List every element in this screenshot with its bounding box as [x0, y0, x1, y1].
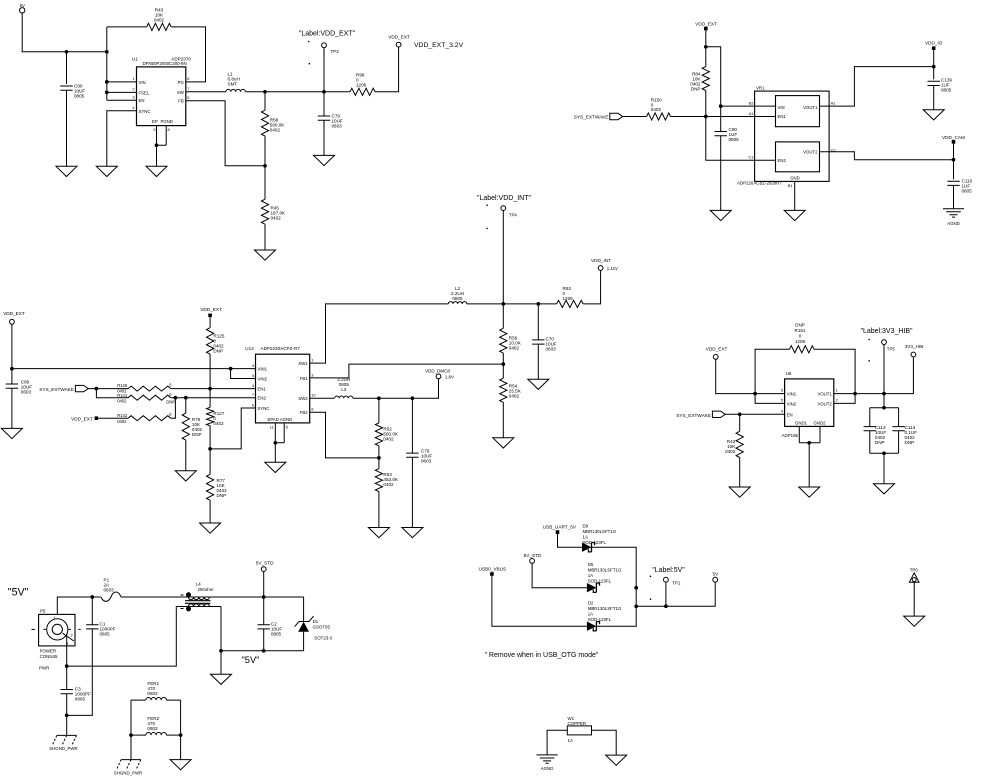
- svg-text:0402: 0402: [270, 128, 281, 133]
- svg-text:GND1: GND1: [795, 421, 808, 426]
- junction C2 bottom: [262, 649, 266, 653]
- svg-text:TP1: TP1: [672, 581, 681, 586]
- wire VDD_IO down: [933, 50, 935, 79]
- svg-text:0603: 0603: [421, 459, 432, 464]
- junction TP1 tap: [664, 604, 668, 608]
- wire TP6 to ground: [913, 582, 915, 616]
- node TP6 test point: [909, 568, 919, 583]
- svg-text:VIN1: VIN1: [787, 392, 797, 397]
- svg-text:ADP220ACBZ-2828R7: ADP220ACBZ-2828R7: [737, 180, 782, 185]
- op-amp U5 ADP195 body: [782, 371, 834, 438]
- svg-text:0603: 0603: [147, 726, 158, 731]
- svg-text:8: 8: [311, 407, 313, 412]
- wire USB_UART_5V to D9: [558, 534, 583, 547]
- wire TP5 down: [883, 345, 885, 408]
- wire P5 pin2 down: [66, 634, 68, 690]
- svg-text:D9: D9: [583, 524, 589, 529]
- resistor W1 COPPER jumper: [567, 716, 591, 743]
- junction VIN pin: [105, 80, 109, 84]
- node USB_UART_5V: [543, 525, 577, 534]
- power flag VDD_CAM: [942, 135, 965, 144]
- resistor R151 DNP: [790, 323, 815, 353]
- junction PWR return: [65, 664, 69, 668]
- wire R142 up to EN2: [171, 398, 176, 419]
- svg-text:PWR: PWR: [39, 665, 49, 670]
- ground R54: [493, 438, 514, 448]
- ground R77: [200, 523, 221, 533]
- junction VIN rail: [753, 392, 757, 396]
- svg-text:R142: R142: [117, 413, 128, 418]
- junction EN1 node: [704, 115, 708, 119]
- svg-text:B2: B2: [749, 101, 754, 106]
- svg-text:VDD_EXT_3.2V: VDD_EXT_3.2V: [414, 42, 464, 49]
- svg-text:0805: 0805: [962, 189, 973, 194]
- ground C80: [56, 166, 77, 176]
- wire W1 right to ground: [592, 730, 617, 755]
- pin C1 label: [749, 155, 754, 160]
- ground C139: [923, 110, 944, 120]
- capacitor C139: [928, 78, 953, 93]
- junction EPAD ground: [273, 441, 277, 445]
- junction R58 top: [263, 90, 267, 94]
- pin 2 FSEL: [107, 87, 137, 93]
- svg-text:0: 0: [799, 334, 802, 339]
- svg-text:VIN2: VIN2: [258, 377, 268, 382]
- ground SHGND_PWR chassis 2: [114, 760, 143, 776]
- svg-text:VOUT1: VOUT1: [817, 392, 832, 397]
- svg-text:AGND: AGND: [947, 221, 960, 226]
- wire R52 to FB2 node: [378, 446, 380, 469]
- svg-text:SYS_EXTWAKE: SYS_EXTWAKE: [39, 387, 74, 392]
- svg-text:R151: R151: [795, 328, 806, 333]
- ground C89: [1, 428, 22, 438]
- svg-text:MBR130LSFT1G: MBR130LSFT1G: [583, 529, 617, 534]
- svg-text:EPAD AGND: EPAD AGND: [268, 417, 293, 422]
- svg-text:DNP: DNP: [691, 87, 701, 92]
- pin numbers U13 right: [311, 358, 316, 412]
- node 3V3_HIB terminal: [905, 344, 924, 357]
- resistor R42: [725, 414, 743, 457]
- node VDD_EXT output terminal: [388, 34, 410, 47]
- svg-text:D1: D1: [313, 619, 319, 624]
- wire TP1 down: [665, 582, 667, 606]
- svg-text:ADP195: ADP195: [782, 433, 799, 438]
- wire C70 to ground: [537, 344, 539, 379]
- svg-text:1206: 1206: [356, 82, 367, 87]
- wire R125 to EN1 node: [209, 354, 211, 388]
- svg-text:SYS_EXTWAKE: SYS_EXTWAKE: [574, 115, 609, 120]
- svg-text:VOUT2: VOUT2: [817, 401, 832, 406]
- junction U5 ground: [807, 441, 811, 445]
- svg-text:VIN1: VIN1: [258, 367, 268, 372]
- wire VIN2 branch: [231, 369, 256, 379]
- svg-text:FSEL: FSEL: [139, 90, 150, 95]
- svg-text:EN: EN: [139, 98, 145, 103]
- junction output rail: [634, 604, 638, 608]
- wire output rail to 5V: [636, 582, 715, 606]
- wire EPAD stubs: [270, 423, 288, 443]
- capacitor C3: [61, 687, 92, 702]
- svg-text:VIN: VIN: [778, 105, 785, 110]
- node SYS_EXTWAKE input U5: [676, 411, 725, 418]
- wire C3 to shield gnd: [66, 694, 68, 736]
- svg-text:0603: 0603: [104, 588, 115, 593]
- svg-text:5V_STD: 5V_STD: [256, 561, 274, 566]
- svg-text:VDD_EXT: VDD_EXT: [388, 34, 410, 39]
- junction EN1 pullup: [208, 387, 212, 391]
- pin B2 label: [749, 101, 754, 106]
- svg-text:MBR130LSFT1G: MBR130LSFT1G: [588, 606, 622, 611]
- ground U5: [799, 487, 820, 497]
- svg-text:VDD_EXT: VDD_EXT: [706, 347, 728, 352]
- svg-text:11: 11: [270, 425, 274, 430]
- svg-text:0402: 0402: [271, 216, 282, 221]
- wire GND pin to ground: [794, 181, 796, 210]
- resistor R98: [350, 73, 375, 96]
- svg-text:0402: 0402: [383, 482, 394, 487]
- pin 7 SW wire: [186, 86, 226, 92]
- wire VOUT2 join: [834, 394, 855, 404]
- wire R58 bottom to FB node: [264, 136, 266, 199]
- svg-text:GND2: GND2: [814, 421, 827, 426]
- svg-text:1: 1: [311, 358, 313, 363]
- svg-text:1: 1: [54, 615, 56, 620]
- svg-text:1.11V: 1.11V: [607, 266, 618, 271]
- resistor R52: [375, 398, 399, 446]
- wire SYNC link: [210, 408, 255, 449]
- wire R53 to ground: [378, 492, 380, 528]
- wire R42 to ground: [739, 458, 741, 488]
- ground AGND earth W1: [537, 755, 558, 771]
- svg-text:EN2: EN2: [258, 396, 267, 401]
- wire GND stubs U5: [799, 426, 820, 442]
- pin 1 VIN: [107, 76, 137, 82]
- svg-text:0402: 0402: [154, 18, 165, 23]
- svg-text:SHGND_PWR: SHGND_PWR: [49, 746, 78, 751]
- svg-text:TP3: TP3: [331, 49, 340, 54]
- connector P5 POWER CONN45: [32, 609, 81, 671]
- svg-text:SMT: SMT: [228, 82, 238, 87]
- svg-text:0805: 0805: [271, 632, 282, 637]
- svg-text:ADP2230ACPZ-R7: ADP2230ACPZ-R7: [261, 346, 301, 351]
- svg-text:DNP: DNP: [192, 432, 202, 437]
- power flag VDD_EXT R142: [71, 416, 98, 421]
- junction VDD_EXT branch: [704, 45, 708, 49]
- wire C110 to AGND: [953, 185, 955, 208]
- node "5V" label small: [242, 655, 260, 665]
- junction TP4 R56 node: [501, 302, 505, 306]
- ground R53: [368, 528, 389, 538]
- capacitor C79: [318, 92, 343, 129]
- wire SW1 up to L2 rail: [310, 304, 449, 363]
- wire R84 bottom: [705, 91, 707, 117]
- junction EP ground: [155, 143, 159, 147]
- svg-text:VIN: VIN: [139, 80, 146, 85]
- svg-text:"Label:VDD_EXT": "Label:VDD_EXT": [299, 31, 356, 38]
- svg-text:0402: 0402: [117, 399, 127, 404]
- power flag VDD_EXT top: [695, 21, 717, 30]
- svg-text:1206: 1206: [563, 296, 574, 301]
- svg-text:VR1: VR1: [756, 85, 765, 90]
- resistor R127: [207, 389, 225, 426]
- svg-text:SW2: SW2: [298, 396, 308, 401]
- wire L4 bottom winding right to ground rail: [221, 607, 304, 651]
- svg-text:0805: 0805: [452, 296, 463, 301]
- resistor R43: [147, 8, 171, 31]
- svg-text:1: 1: [132, 76, 134, 81]
- svg-text:TP6: TP6: [910, 568, 919, 573]
- svg-text:1206: 1206: [795, 339, 806, 344]
- svg-text:SW: SW: [177, 90, 185, 95]
- wire R141 to EN2 pin: [171, 397, 256, 399]
- svg-text:3: 3: [311, 372, 313, 377]
- svg-text:1A: 1A: [568, 738, 573, 743]
- wire R77 to ground: [209, 500, 211, 523]
- wire C79 to ground: [323, 120, 325, 155]
- svg-text:CONN45: CONN45: [40, 654, 58, 659]
- svg-text:FB1: FB1: [300, 376, 308, 381]
- ground W1 right: [606, 755, 627, 765]
- svg-text:USB_UART_5V: USB_UART_5V: [543, 525, 577, 530]
- junction FER2 right: [179, 733, 183, 737]
- pin 4 SYNC wire to ground: [107, 105, 137, 166]
- note remove USB_OTG: [485, 652, 599, 659]
- svg-text:"5V": "5V": [242, 655, 260, 665]
- svg-text:0402: 0402: [117, 419, 127, 424]
- wire R127 to R77 junction: [209, 426, 211, 475]
- svg-text:0805: 0805: [729, 137, 740, 142]
- capacitor C70: [532, 304, 557, 352]
- wire FB2 feedback: [310, 412, 379, 458]
- svg-text:VOUT2: VOUT2: [803, 150, 818, 155]
- node "5V" label big: [8, 586, 29, 598]
- wire W1 left to AGND: [547, 730, 567, 755]
- svg-text:8: 8: [168, 127, 170, 132]
- resistor R53: [375, 469, 399, 492]
- wire C1 to shield gnd: [67, 629, 93, 716]
- svg-text:U1: U1: [132, 56, 138, 61]
- capacitor C113: [864, 408, 899, 454]
- svg-text:5: 5: [252, 373, 254, 378]
- svg-text:VDD_EXT: VDD_EXT: [3, 311, 25, 316]
- svg-text:TP4: TP4: [509, 213, 518, 218]
- ground L4 rail: [211, 674, 232, 684]
- ground SYNC: [96, 166, 117, 176]
- ground FER right: [170, 760, 191, 770]
- svg-text:3: 3: [132, 94, 134, 99]
- svg-text:COPPER: COPPER: [568, 721, 587, 726]
- wire L3 to VDD_DMC8: [353, 379, 439, 398]
- svg-text:PG: PG: [178, 80, 185, 85]
- svg-text:TP5: TP5: [887, 347, 896, 352]
- node 5V_STD terminal: [256, 561, 274, 572]
- svg-text:U5: U5: [786, 371, 792, 376]
- ground AGND earth: [943, 209, 964, 226]
- wire R151 left leg: [755, 349, 789, 393]
- svg-text:R126: R126: [117, 383, 128, 388]
- svg-text:GND: GND: [790, 176, 800, 181]
- svg-text:SW1: SW1: [298, 361, 308, 366]
- svg-text:A1: A1: [749, 111, 754, 116]
- junction R76 tap: [184, 396, 188, 400]
- svg-text:PGND: PGND: [161, 119, 173, 124]
- junction C70 tap: [536, 302, 540, 306]
- svg-text:7: 7: [187, 86, 189, 91]
- ground TP6: [904, 616, 925, 626]
- wire SW node L1 to R98: [245, 91, 350, 93]
- node TP4 test point: [477, 195, 532, 218]
- svg-text:1A: 1A: [588, 573, 593, 578]
- svg-text:MBR130LSFT1G: MBR130LSFT1G: [588, 568, 622, 573]
- svg-text:EN1: EN1: [258, 387, 267, 392]
- wire VOUT1 A2 to VDD_IO: [820, 67, 934, 107]
- junction cap bottom: [882, 451, 886, 455]
- capacitor C76: [406, 398, 432, 463]
- svg-text:7: 7: [252, 392, 254, 397]
- svg-text:6: 6: [781, 388, 783, 393]
- svg-text:U13: U13: [245, 346, 254, 351]
- junction C1 tap: [90, 595, 94, 599]
- svg-text:3V3_HIB: 3V3_HIB: [905, 344, 924, 349]
- svg-text:EN1: EN1: [778, 114, 787, 119]
- wire R150 to EN1 pin: [671, 116, 776, 118]
- inductor FER2: [131, 716, 181, 735]
- junction ground rail: [219, 649, 223, 653]
- pin A1 label: [749, 111, 754, 116]
- svg-text:USB0_VBUS: USB0_VBUS: [479, 567, 507, 572]
- wire R98 to VDD_EXT terminal: [375, 47, 399, 92]
- svg-text:"5V": "5V": [8, 586, 29, 598]
- ground R76: [175, 471, 196, 481]
- svg-text:VOUT1: VOUT1: [803, 105, 818, 110]
- resistor R76: [182, 398, 202, 440]
- svg-text:FB: FB: [178, 99, 184, 104]
- node USB0_VBUS: [479, 567, 507, 576]
- svg-text:EP: EP: [152, 119, 158, 124]
- op-amp VR1 regulator 1 cell: [776, 96, 820, 127]
- svg-text:EN2: EN2: [778, 158, 787, 163]
- svg-text:R141: R141: [117, 393, 128, 398]
- ground R45: [255, 250, 276, 260]
- svg-text:0805: 0805: [75, 697, 86, 702]
- node SYS_EXTWAKE input middle: [39, 385, 88, 392]
- svg-text:0402: 0402: [651, 107, 662, 112]
- ground EPAD: [265, 462, 286, 472]
- pin numbers U5: [781, 388, 838, 414]
- junction TP3 node: [322, 90, 326, 94]
- wire C139 to ground: [933, 86, 935, 110]
- resistor R77: [207, 474, 228, 500]
- ground C70: [528, 379, 549, 389]
- junction FB1 divider: [501, 362, 505, 366]
- wire EPAD to ground: [274, 443, 276, 463]
- resistor R58: [261, 92, 285, 136]
- resistor R56: [500, 328, 522, 353]
- wire FER rails: [131, 700, 181, 760]
- resistor R141: [117, 392, 175, 404]
- wire SW2 to L3: [310, 397, 335, 399]
- power flag VDD_EXT R125: [200, 307, 222, 317]
- wire C80 top: [66, 52, 68, 84]
- svg-text:VDD_CAM: VDD_CAM: [942, 135, 965, 140]
- wire 5V_STD to D5: [532, 563, 587, 587]
- junction C89 tap: [10, 367, 14, 371]
- wire R45 to ground: [264, 224, 266, 250]
- wire C80 to ground: [66, 90, 68, 166]
- svg-text:SYNC: SYNC: [258, 406, 270, 411]
- wire TP4 down to R56: [502, 211, 504, 329]
- svg-text:SOD-123FL: SOD-123FL: [588, 579, 612, 584]
- svg-text:L3: L3: [341, 387, 347, 392]
- ground C76: [402, 528, 423, 538]
- svg-text:0603: 0603: [546, 347, 557, 352]
- inductor L3: [335, 377, 353, 398]
- wire R43 right to PG: [171, 27, 205, 82]
- junction R42 tap: [738, 412, 742, 416]
- svg-text:SOD-123FL: SOD-123FL: [588, 617, 612, 622]
- svg-text:5: 5: [781, 398, 783, 403]
- wire 5V_STD down: [263, 572, 265, 598]
- svg-text:SOD-123FL: SOD-123FL: [583, 540, 607, 545]
- svg-text:C2: C2: [831, 147, 836, 152]
- fuse P1: [101, 578, 121, 602]
- ground R42: [729, 487, 750, 497]
- svg-text:250ohm: 250ohm: [198, 587, 214, 592]
- svg-text:FB2: FB2: [300, 410, 308, 415]
- capacitor C114: [892, 408, 917, 454]
- node 5V terminal diode rail: [713, 572, 720, 583]
- wire R54 to ground: [502, 402, 504, 438]
- svg-text:SYS_EXTWAKE: SYS_EXTWAKE: [676, 413, 711, 418]
- svg-text:"Label:VDD_INT": "Label:VDD_INT": [477, 195, 532, 202]
- pin GND B1 label: [788, 176, 800, 188]
- wire R126 to EN1 pin: [171, 388, 256, 390]
- wire VDD_CAM down: [953, 144, 955, 180]
- capacitor C89: [6, 369, 33, 395]
- svg-text:0603: 0603: [21, 390, 32, 395]
- wire tag to R150: [623, 116, 647, 118]
- wire 5V input to VIN: [22, 13, 107, 52]
- junction B2 VIN node: [719, 104, 723, 108]
- svg-text:SYNC: SYNC: [139, 109, 151, 114]
- wire EP to ground: [156, 145, 158, 166]
- wire VOUT1 to 3V3_HIB: [834, 357, 914, 394]
- node 5V input terminal: [20, 3, 26, 13]
- capacitor C80: [60, 84, 85, 99]
- wire cap bottom rail: [870, 452, 899, 454]
- svg-text:5V: 5V: [20, 3, 25, 8]
- wire R151 right leg: [814, 349, 855, 393]
- svg-text:DNP: DNP: [795, 323, 805, 328]
- svg-text:0603: 0603: [332, 124, 343, 129]
- svg-text:5V: 5V: [713, 572, 720, 577]
- node TP5 test point: [860, 328, 913, 352]
- svg-text:DNP: DNP: [905, 440, 915, 445]
- svg-text:GSOT05: GSOT05: [313, 624, 331, 629]
- svg-text:A2: A2: [831, 101, 836, 106]
- pin numbers U13 left: [252, 363, 255, 407]
- svg-text:VIN2: VIN2: [787, 401, 797, 406]
- ground VR1: [784, 210, 805, 220]
- junction R151 right at VOUT: [853, 392, 857, 396]
- wire L2 to R63: [467, 303, 557, 305]
- wire P5 pin1 up to 5V rail: [57, 597, 100, 614]
- power flag VDD_IO: [925, 41, 943, 50]
- junction R52 tap: [377, 396, 381, 400]
- svg-text:DNP: DNP: [166, 399, 175, 404]
- junction 5V_STD node: [262, 595, 266, 599]
- node VDD_EXT terminal middle: [3, 311, 25, 324]
